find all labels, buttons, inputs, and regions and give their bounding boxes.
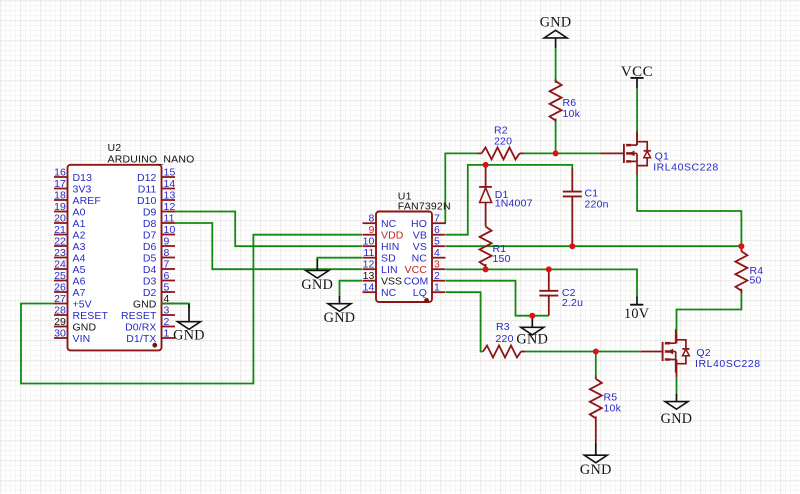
svg-text:9: 9 xyxy=(369,224,375,236)
U2 pin 28 RESET xyxy=(54,305,108,322)
svg-text:RESET: RESET xyxy=(121,310,157,322)
svg-text:1N4007: 1N4007 xyxy=(495,198,533,210)
svg-text:9: 9 xyxy=(164,236,170,248)
svg-text:D5: D5 xyxy=(143,252,157,264)
svg-text:A7: A7 xyxy=(73,287,86,299)
wire R4 top node xyxy=(740,246,742,250)
svg-text:VSS: VSS xyxy=(381,276,402,288)
U2 pin 6 D3 xyxy=(143,270,175,287)
svg-text:2: 2 xyxy=(164,316,170,328)
wire R6 bottom to node xyxy=(555,122,557,153)
U1 pin 3 VCC xyxy=(405,259,446,276)
U1 pin 13 VSS xyxy=(363,270,403,287)
wire COM to C2 bottom xyxy=(446,281,549,316)
U2 pin 7 D4 xyxy=(143,259,175,276)
U2 pin 19 A0 xyxy=(54,201,86,218)
U1 pin 5 VS xyxy=(413,236,446,253)
svg-text:RESET: RESET xyxy=(73,310,109,322)
svg-text:D10: D10 xyxy=(137,195,157,207)
svg-text:220: 220 xyxy=(496,333,514,345)
U1 pin 12 LIN xyxy=(363,259,398,276)
svg-text:GND: GND xyxy=(324,310,356,326)
svg-text:VDD: VDD xyxy=(381,230,404,242)
svg-text:D1/TX: D1/TX xyxy=(126,333,156,345)
U2 pin 30 VIN xyxy=(54,328,90,345)
svg-text:IRL40SC228: IRL40SC228 xyxy=(653,162,719,174)
ground Q2 source xyxy=(676,394,678,402)
wire VCC 10V rail xyxy=(446,269,637,296)
wire D8 to LIN xyxy=(175,223,362,269)
wire VB to D1 and C1 xyxy=(446,165,572,235)
U2 pin 22 A3 xyxy=(54,236,86,253)
svg-text:15: 15 xyxy=(164,167,176,179)
svg-text:25: 25 xyxy=(54,270,66,282)
capacitor C1 220n xyxy=(571,169,573,192)
resistor R1 150 xyxy=(480,227,492,267)
svg-text:VS: VS xyxy=(413,241,427,253)
svg-text:50: 50 xyxy=(750,274,762,286)
U2 pin 10 D7 xyxy=(143,224,176,241)
svg-text:11: 11 xyxy=(164,213,175,225)
U2 pin 9 D6 xyxy=(143,236,175,253)
svg-text:1: 1 xyxy=(434,282,440,294)
ground SD pin xyxy=(316,259,318,271)
svg-text:A2: A2 xyxy=(73,229,86,241)
junction node C2 gnd xyxy=(529,313,535,319)
U1 anchor dot xyxy=(424,298,429,303)
ground VSS pin xyxy=(339,296,341,304)
svg-text:IRL40SC228: IRL40SC228 xyxy=(695,358,761,370)
svg-text:13: 13 xyxy=(363,270,375,282)
U2 pin 11 D8 xyxy=(143,213,175,230)
svg-text:R3: R3 xyxy=(496,321,510,333)
svg-text:VB: VB xyxy=(413,230,427,242)
transistor Q1 gate lead xyxy=(601,152,624,154)
svg-text:12: 12 xyxy=(363,259,375,271)
wire VCC symbol to Q1 drain xyxy=(636,88,638,131)
U2 pin 8 D5 xyxy=(143,247,175,264)
svg-text:6: 6 xyxy=(434,224,440,236)
resistor R5 10k xyxy=(595,376,597,379)
U1 pin 4 NC xyxy=(412,247,446,264)
svg-text:GND: GND xyxy=(173,328,205,344)
U1 pin 9 VDD xyxy=(363,224,404,241)
ground flag above R6 xyxy=(555,38,557,48)
svg-text:D9: D9 xyxy=(143,206,157,218)
ground C2 xyxy=(531,316,533,328)
resistor R2 220 xyxy=(478,152,482,154)
U2 pin 16 D13 xyxy=(54,167,92,184)
svg-text:3: 3 xyxy=(164,305,170,317)
U1 pin 8 NC xyxy=(363,213,397,230)
resistor R6 10k xyxy=(555,79,557,81)
svg-text:5: 5 xyxy=(164,282,170,294)
resistor R4 50 xyxy=(740,248,742,252)
svg-text:29: 29 xyxy=(54,316,66,328)
transistor Q1 IRL40SC228 xyxy=(624,131,651,174)
svg-text:7: 7 xyxy=(164,259,170,271)
wire VSS to ground xyxy=(340,281,363,297)
U2 pin 20 A1 xyxy=(54,213,86,230)
wire GND to R6 top xyxy=(555,48,557,83)
svg-text:GND: GND xyxy=(580,462,612,478)
capacitor C2 2.2u xyxy=(548,269,550,290)
wire VS rail xyxy=(446,245,741,247)
U2 pin 26 A7 xyxy=(54,282,86,299)
junction node VB D1 xyxy=(483,162,489,168)
svg-text:27: 27 xyxy=(54,293,66,305)
wire R2 to Q1 gate node xyxy=(524,152,601,154)
svg-text:18: 18 xyxy=(54,190,66,202)
U2 pin 1 D1/TX xyxy=(126,328,175,345)
svg-text:R6: R6 xyxy=(563,97,577,109)
svg-text:A4: A4 xyxy=(73,252,86,264)
svg-text:SD: SD xyxy=(381,253,396,265)
svg-text:D2: D2 xyxy=(143,287,157,299)
svg-text:D7: D7 xyxy=(143,229,157,241)
junction node R3 R5 Q2 gate xyxy=(593,349,599,355)
svg-text:GND: GND xyxy=(73,321,97,333)
transistor Q2 source lead xyxy=(676,360,678,378)
svg-text:D12: D12 xyxy=(137,172,157,184)
svg-text:A5: A5 xyxy=(73,264,86,276)
svg-text:13: 13 xyxy=(164,190,176,202)
U2 pin 14 D11 xyxy=(138,178,176,195)
svg-text:10k: 10k xyxy=(563,108,581,120)
U1 pin 2 COM xyxy=(404,270,446,287)
svg-text:NC: NC xyxy=(381,218,397,230)
U2 pin 2 D0/RX xyxy=(125,316,175,333)
junction node VS C1 xyxy=(569,243,575,249)
wire HO to R2 xyxy=(445,153,477,223)
svg-text:VCC: VCC xyxy=(405,264,428,276)
svg-text:COM: COM xyxy=(404,276,429,288)
svg-text:220n: 220n xyxy=(585,198,609,210)
svg-text:10k: 10k xyxy=(604,403,622,415)
svg-text:D0/RX: D0/RX xyxy=(125,321,156,333)
U2 pin 15 D12 xyxy=(137,167,176,184)
U1 pin 11 SD xyxy=(363,247,397,264)
svg-text:10: 10 xyxy=(363,236,375,248)
wire U2 pin4 GND overlay xyxy=(162,303,190,305)
svg-text:20: 20 xyxy=(54,213,66,225)
svg-text:4: 4 xyxy=(434,247,440,259)
svg-text:8: 8 xyxy=(369,213,375,225)
svg-text:14: 14 xyxy=(164,178,176,190)
svg-text:17: 17 xyxy=(54,178,66,190)
wire Q1 source to VS node xyxy=(637,175,741,247)
svg-text:A6: A6 xyxy=(73,275,86,287)
U2 pin 5 D2 xyxy=(143,282,175,299)
U2 pin 17 3V3 xyxy=(54,178,92,195)
svg-text:220: 220 xyxy=(494,136,512,148)
diode D1 1N4007 xyxy=(485,165,487,187)
U2 pin 24 A5 xyxy=(54,259,86,276)
svg-text:A1: A1 xyxy=(73,218,86,230)
svg-text:14: 14 xyxy=(363,282,375,294)
U1 pin 7 HO xyxy=(411,213,445,230)
op-amp U2 ARDUINO_NANO box xyxy=(68,165,162,351)
svg-text:8: 8 xyxy=(164,247,170,259)
transistor Q1 drain lead xyxy=(636,131,638,145)
svg-text:22: 22 xyxy=(54,236,66,248)
resistor R3 220 xyxy=(483,346,521,358)
U2 anchor dot xyxy=(152,343,157,348)
ground U2 pin4 xyxy=(188,304,190,322)
svg-text:23: 23 xyxy=(54,247,66,259)
svg-text:GND: GND xyxy=(540,15,572,31)
U2 pin 25 A6 xyxy=(54,270,86,287)
transistor Q2 IRL40SC228 xyxy=(663,329,690,372)
svg-text:LIN: LIN xyxy=(381,264,398,276)
svg-text:D4: D4 xyxy=(143,264,157,276)
svg-text:7: 7 xyxy=(434,213,440,225)
op-amp U1 FAN7392N box xyxy=(376,212,432,303)
wire R4 bottom to Q2 drain xyxy=(677,293,742,335)
svg-text:26: 26 xyxy=(54,282,66,294)
U1 pin 6 VB xyxy=(413,224,446,241)
svg-text:6: 6 xyxy=(164,270,170,282)
svg-text:D3: D3 xyxy=(143,275,157,287)
svg-text:AREF: AREF xyxy=(73,195,101,207)
svg-text:30: 30 xyxy=(54,328,66,340)
U2 pin 13 D10 xyxy=(137,190,176,207)
U2 pin 29 GND xyxy=(54,316,96,333)
wire Q2 source to ground xyxy=(676,377,678,394)
svg-text:D6: D6 xyxy=(143,241,157,253)
svg-text:U2: U2 xyxy=(108,142,122,154)
svg-text:3V3: 3V3 xyxy=(73,183,92,195)
svg-text:2.2u: 2.2u xyxy=(562,297,583,309)
svg-text:1: 1 xyxy=(164,328,170,340)
wire D9 to HIN xyxy=(175,212,362,247)
wire SD to ground xyxy=(317,258,362,261)
svg-text:2: 2 xyxy=(434,270,440,282)
power flag 10V xyxy=(630,304,643,306)
U1 pin 10 HIN xyxy=(363,236,400,253)
svg-text:HO: HO xyxy=(411,218,427,230)
wire U2 pin4 GND xyxy=(162,304,190,309)
svg-text:10: 10 xyxy=(164,224,176,236)
svg-text:12: 12 xyxy=(164,201,176,213)
svg-text:21: 21 xyxy=(54,224,66,236)
ground R5 xyxy=(595,443,597,455)
wire R3 to Q2 gate node xyxy=(525,351,641,353)
U1 pin 1 LQ xyxy=(413,282,446,299)
svg-text:D8: D8 xyxy=(143,218,157,230)
svg-text:10V: 10V xyxy=(624,306,650,322)
svg-text:HIN: HIN xyxy=(381,241,399,253)
svg-text:+5V: +5V xyxy=(73,298,92,310)
U2 pin 4 GND xyxy=(133,293,175,310)
svg-text:GND: GND xyxy=(516,332,548,348)
svg-text:FAN7392N: FAN7392N xyxy=(398,200,451,212)
svg-text:NC: NC xyxy=(412,253,428,265)
junction node VS R4 Q1 source xyxy=(738,243,744,249)
svg-text:GND: GND xyxy=(133,298,157,310)
wire node to R5 top xyxy=(595,352,597,376)
svg-text:GND: GND xyxy=(661,411,693,427)
U2 pin 23 A4 xyxy=(54,247,86,264)
U2 pin 18 AREF xyxy=(54,190,101,207)
U2 pin 27 +5V xyxy=(54,293,92,310)
svg-text:3: 3 xyxy=(434,259,440,271)
svg-text:5: 5 xyxy=(434,236,440,248)
U1 pin 14 NC xyxy=(363,282,397,299)
junction node rail R1 xyxy=(483,266,489,272)
svg-text:150: 150 xyxy=(493,253,511,265)
svg-text:D13: D13 xyxy=(73,172,93,184)
svg-text:A0: A0 xyxy=(73,206,86,218)
svg-text:19: 19 xyxy=(54,201,66,213)
svg-text:NC: NC xyxy=(381,287,397,299)
svg-text:ARDUINO_NANO: ARDUINO_NANO xyxy=(108,154,195,166)
wire LQ to R3 xyxy=(446,292,483,351)
wire R5 bottom to ground xyxy=(595,416,597,443)
transistor Q2 drain lead xyxy=(676,335,678,344)
svg-text:LQ: LQ xyxy=(413,287,427,299)
U2 pin 21 A2 xyxy=(54,224,86,241)
U2 pin 12 D9 xyxy=(143,201,176,218)
svg-text:11: 11 xyxy=(363,247,374,259)
junction node rail C2 xyxy=(546,266,552,272)
svg-text:VIN: VIN xyxy=(73,333,91,345)
svg-text:24: 24 xyxy=(54,259,66,271)
junction node R2 R6 Q1 gate xyxy=(553,150,559,156)
svg-text:D11: D11 xyxy=(138,183,157,195)
svg-text:GND: GND xyxy=(301,277,333,293)
svg-text:R5: R5 xyxy=(604,392,618,404)
svg-text:28: 28 xyxy=(54,305,66,317)
svg-text:16: 16 xyxy=(54,167,66,179)
svg-text:A3: A3 xyxy=(73,241,86,253)
wire +5V to VDD xyxy=(21,235,362,384)
transistor Q2 gate lead xyxy=(641,351,663,353)
U2 pin 3 RESET xyxy=(121,305,175,322)
